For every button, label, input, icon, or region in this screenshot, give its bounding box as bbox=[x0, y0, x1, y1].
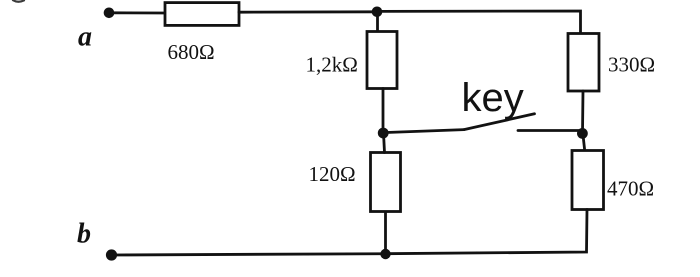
resistor R470 ohm bbox=[572, 151, 604, 210]
svg-text:680Ω: 680Ω bbox=[168, 40, 215, 64]
resistor 680 ohm bbox=[165, 3, 239, 26]
wire R120 bottom to bottom wire bbox=[384, 212, 387, 254]
node mid-right junction bbox=[577, 128, 588, 139]
node mid-left junction bbox=[378, 128, 389, 139]
node top junction bbox=[372, 7, 383, 18]
node b bbox=[106, 249, 117, 260]
wire R1.2k to mid-left node bbox=[382, 89, 385, 134]
wire R330 to mid-right node bbox=[581, 91, 584, 133]
resistor R 1,2k ohm bbox=[367, 32, 397, 89]
wire mid-right node to R470 bbox=[583, 133, 585, 151]
wire R470 down to bottom-right corner then bottom wire to node b bbox=[112, 210, 588, 256]
svg-text:b: b bbox=[77, 219, 91, 250]
svg-text:1,2kΩ: 1,2kΩ bbox=[306, 53, 358, 77]
wire top junction to top-right corner bbox=[377, 11, 581, 34]
resistor R120 ohm bbox=[371, 153, 401, 212]
node bottom junction bbox=[380, 249, 390, 259]
stray mark (cropped glyph at top edge) bbox=[13, 0, 24, 2]
wire a to R680 bbox=[109, 11, 164, 14]
wire R680 to top junction bbox=[239, 10, 377, 13]
svg-text:a: a bbox=[78, 22, 92, 53]
svg-text:330Ω: 330Ω bbox=[608, 53, 655, 77]
svg-text:120Ω: 120Ω bbox=[309, 162, 356, 186]
wire mid-left node down to R120 bbox=[384, 133, 385, 153]
wire mid-left node toward switch pivot bbox=[383, 130, 464, 133]
svg-text:470Ω: 470Ω bbox=[607, 177, 654, 201]
wire top junction down to R1.2k bbox=[376, 12, 379, 32]
switch blade (key) bbox=[464, 114, 535, 130]
resistor R330 ohm bbox=[568, 34, 599, 92]
node a bbox=[104, 8, 115, 19]
svg-text:key: key bbox=[462, 76, 524, 120]
switch fixed contact wire bbox=[518, 129, 584, 132]
